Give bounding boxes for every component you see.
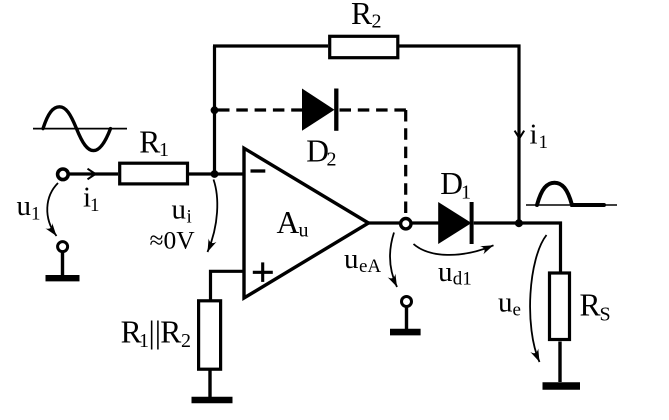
- wire op-amp output: [367, 221, 439, 224]
- arrow i1 down on right wire: [515, 131, 525, 139]
- curved arrow ui: [208, 180, 218, 253]
- ground ueA: [390, 307, 421, 333]
- ground RS: [543, 342, 581, 387]
- resistor R2: [330, 36, 398, 57]
- wire input to R1: [69, 172, 118, 175]
- wire R1 to op-amp: [189, 172, 245, 175]
- op-amp U1 triangle: [244, 148, 369, 298]
- wire right vertical: [517, 45, 520, 224]
- ground u1: [46, 252, 80, 279]
- wire R2 to right vertical: [399, 44, 521, 47]
- output half-wave symbol: [526, 183, 617, 205]
- svg-text:e: e: [513, 300, 521, 321]
- svg-text:1: 1: [31, 203, 41, 224]
- svg-text:A: A: [277, 205, 300, 240]
- curved arrow u1: [47, 183, 58, 236]
- svg-text:d1: d1: [453, 269, 472, 290]
- input terminal circle: [58, 169, 69, 180]
- ground circle ueA: [402, 297, 412, 307]
- op-amp minus input sign: [251, 169, 266, 172]
- svg-text:R: R: [580, 288, 601, 323]
- svg-text:1: 1: [461, 182, 471, 204]
- svg-text:2: 2: [372, 11, 382, 33]
- resistor RS: [550, 273, 570, 340]
- input sine waveform symbol: [33, 107, 127, 151]
- svg-text:R: R: [139, 125, 160, 160]
- svg-text:u: u: [172, 194, 187, 226]
- svg-text:i: i: [530, 119, 538, 151]
- svg-text:eA: eA: [359, 256, 381, 277]
- svg-text:1: 1: [159, 139, 169, 161]
- wire D1 to RS corner: [474, 223, 561, 272]
- curved arrow ueA: [390, 233, 397, 288]
- wire plus input: [211, 271, 245, 299]
- svg-text:2: 2: [327, 148, 337, 170]
- dashed wire right of D2: [340, 108, 408, 111]
- svg-text:1: 1: [539, 132, 549, 153]
- svg-text:u: u: [299, 220, 309, 242]
- svg-text:D: D: [440, 166, 463, 201]
- arrow i1 on input wire: [88, 169, 96, 180]
- svg-text:R: R: [160, 315, 181, 350]
- svg-text:≈0V: ≈0V: [150, 225, 196, 254]
- curved arrow ue: [530, 235, 546, 362]
- node dot feedback/dashed junction: [211, 106, 219, 114]
- svg-text:||: ||: [149, 315, 162, 350]
- dashed wire left of D2: [218, 108, 302, 111]
- svg-text:1: 1: [90, 195, 100, 216]
- svg-text:2: 2: [181, 330, 191, 352]
- svg-text:S: S: [600, 304, 611, 326]
- svg-text:R: R: [351, 0, 372, 31]
- diode D1: [438, 202, 471, 244]
- ground R1||R2: [192, 371, 233, 401]
- output node circle ueA: [401, 219, 411, 229]
- svg-text:1: 1: [139, 330, 149, 352]
- op-amp plus input sign: [253, 262, 273, 282]
- diode D2: [302, 89, 336, 131]
- dashed wire vertical to output node: [404, 110, 407, 217]
- svg-text:u: u: [344, 243, 359, 275]
- svg-text:u: u: [498, 287, 513, 319]
- svg-text:u: u: [17, 190, 32, 222]
- resistor R1||R2: [199, 301, 221, 369]
- ground circle u1: [58, 242, 68, 252]
- resistor R1: [120, 163, 188, 184]
- curved arrow ud1: [414, 244, 494, 255]
- svg-text:u: u: [438, 256, 453, 288]
- node dot output junction: [515, 219, 523, 227]
- wire left vertical (feedback): [213, 46, 216, 174]
- node dot inverting input: [211, 170, 219, 178]
- wire top to R2: [213, 44, 328, 47]
